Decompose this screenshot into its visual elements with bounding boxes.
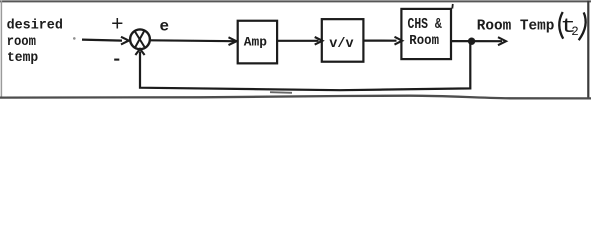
svg-text:+: + <box>111 15 124 38</box>
svg-text:2: 2 <box>571 25 579 39</box>
svg-text:temp: temp <box>7 51 38 66</box>
svg-text:room: room <box>7 35 36 50</box>
svg-text:e: e <box>160 18 170 36</box>
svg-text:Room Temp: Room Temp <box>477 19 555 35</box>
svg-text:Amp: Amp <box>244 35 267 50</box>
svg-text:desired: desired <box>7 18 63 33</box>
svg-text:CHS &: CHS & <box>408 16 442 33</box>
svg-text:v/v: v/v <box>329 36 354 52</box>
svg-text:Room: Room <box>409 33 439 49</box>
